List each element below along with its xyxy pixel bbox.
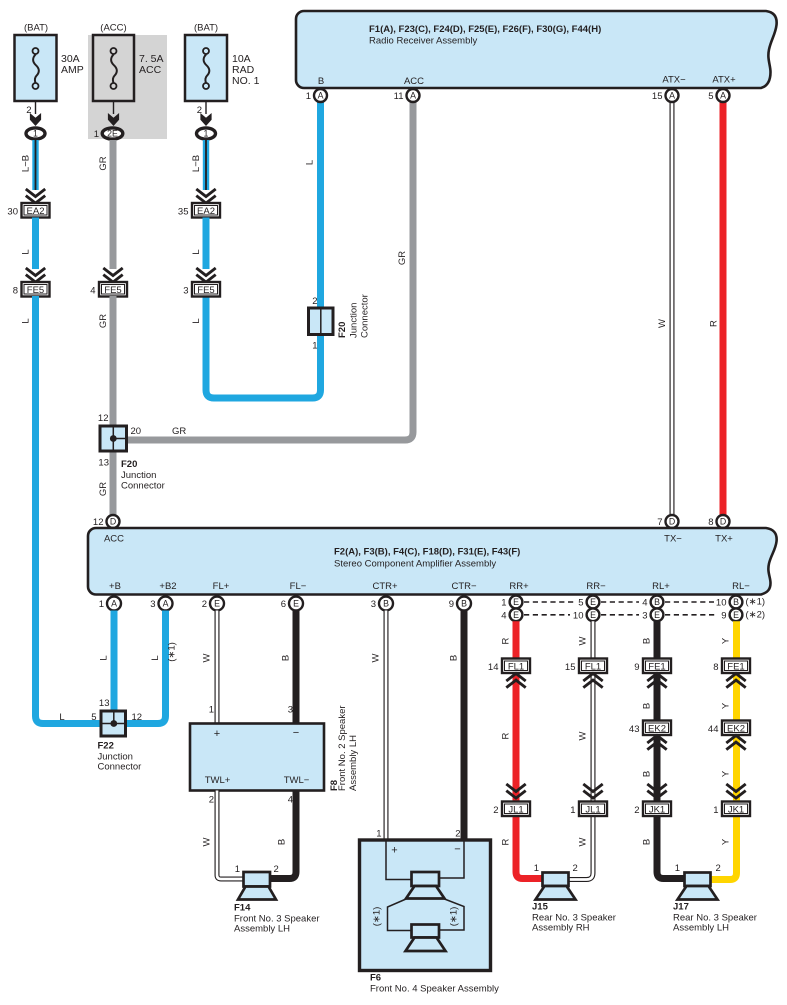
wire L-B fuse3 (blue with black stripe) — [203, 140, 209, 190]
svg-text:B: B — [642, 703, 653, 709]
svg-text:L−B: L−B — [191, 155, 202, 172]
svg-text:B: B — [383, 599, 389, 609]
svg-text:Junction: Junction — [349, 303, 360, 338]
svg-text:ACC: ACC — [104, 534, 124, 545]
svg-text:Connector: Connector — [121, 481, 165, 492]
svg-text:3: 3 — [288, 705, 293, 716]
F22 name label — [98, 741, 142, 773]
wire W from radio ATX- to amp TX- : outline — [670, 100, 675, 515]
svg-text:7: 7 — [657, 517, 662, 528]
svg-text:TX−: TX− — [664, 534, 682, 545]
svg-text:F6: F6 — [370, 973, 381, 984]
oval connector 2E (fuse2) — [102, 128, 123, 139]
svg-text:D: D — [669, 517, 675, 527]
svg-text:CTR−: CTR− — [451, 581, 477, 592]
svg-text:3: 3 — [183, 286, 188, 297]
svg-text:9: 9 — [634, 662, 639, 673]
F6 speaker 1 symbol — [406, 872, 445, 899]
svg-text:(BAT): (BAT) — [24, 23, 48, 34]
F6 internal wiring to speaker 2 — [388, 899, 465, 931]
svg-text:(BAT): (BAT) — [194, 23, 218, 34]
svg-text:FL1: FL1 — [585, 662, 601, 673]
svg-text:12: 12 — [98, 413, 109, 424]
oval connector 1 (fuse3) — [197, 128, 216, 139]
connector box 14 FL1 — [488, 659, 530, 674]
pin circle 5 A (radio ATX+) — [708, 89, 729, 102]
connector box 1 JK1 — [713, 802, 750, 817]
connector box 4 FE5 — [90, 282, 127, 297]
pin circle 10 E (RR- row2) — [573, 608, 599, 621]
svg-text:15: 15 — [652, 91, 663, 102]
svg-text:D: D — [110, 517, 116, 527]
pin circle 3 B (CTR+) — [371, 597, 393, 611]
svg-text:L: L — [21, 249, 32, 254]
svg-text:JL1: JL1 — [508, 805, 523, 816]
F14 name label — [234, 903, 320, 935]
svg-text:E: E — [214, 599, 220, 609]
svg-text:2: 2 — [209, 795, 214, 806]
svg-text:1: 1 — [312, 341, 317, 352]
svg-text:L: L — [99, 655, 110, 660]
F6 speaker 2 symbol — [406, 925, 446, 952]
wire W inner — [567, 621, 593, 879]
svg-text:13: 13 — [98, 458, 109, 469]
svg-text:F14: F14 — [234, 903, 251, 914]
svg-text:L: L — [59, 712, 64, 723]
connector box 8 FE1 — [713, 659, 750, 674]
svg-text:(∗1): (∗1) — [746, 597, 766, 608]
J17 name label — [673, 902, 757, 934]
svg-text:2: 2 — [573, 863, 578, 874]
svg-text:−: − — [454, 844, 460, 856]
svg-text:30: 30 — [7, 207, 18, 218]
dashed links row2 — [524, 614, 716, 616]
svg-text:RL−: RL− — [732, 581, 750, 592]
svg-text:2: 2 — [312, 296, 317, 307]
wire L from +B to F22 pin 13 — [111, 611, 118, 713]
svg-text:13: 13 — [99, 698, 110, 709]
svg-text:+: + — [214, 728, 220, 740]
svg-text:1: 1 — [204, 129, 209, 139]
svg-text:A: A — [720, 91, 726, 101]
chevron below EK2 (RL+) — [647, 736, 666, 750]
svg-text:Y: Y — [721, 838, 732, 845]
svg-text:14: 14 — [488, 662, 499, 673]
connector box 9 FE1 — [634, 659, 671, 674]
svg-text:W: W — [202, 653, 213, 662]
svg-text:R: R — [501, 637, 512, 644]
wire W inner white — [671, 100, 674, 515]
svg-text:F2(A), F3(B), F4(C), F18(D), F: F2(A), F3(B), F4(C), F18(D), F31(E), F43… — [334, 547, 520, 558]
wire R from RR+ to J15 — [516, 621, 543, 878]
svg-text:Connector: Connector — [98, 762, 142, 773]
oval connector 1 (fuse1) — [26, 128, 45, 139]
svg-text:Front No. 2 Speaker: Front No. 2 Speaker — [337, 705, 348, 791]
connector box 3 FE5 — [183, 282, 220, 297]
svg-text:15: 15 — [565, 662, 576, 673]
wire GR fuse2 oval to FE5 — [110, 140, 117, 269]
fuse 30A AMP body — [15, 35, 57, 101]
svg-text:E: E — [513, 597, 519, 607]
svg-text:−: − — [293, 727, 299, 739]
wire B from F8 TWL- to F14 — [269, 791, 296, 879]
svg-text:Connector: Connector — [360, 294, 371, 338]
svg-text:2: 2 — [274, 864, 279, 875]
junction connector F20 (right) — [309, 308, 334, 335]
F6 name label — [370, 973, 499, 995]
pin circle 3 E (RL+ row2) — [642, 608, 663, 621]
svg-text:JK1: JK1 — [728, 805, 744, 816]
svg-text:W: W — [578, 636, 589, 645]
wire B from FL- to F8 — [293, 611, 300, 725]
svg-text:A: A — [410, 91, 416, 101]
J15 name label — [532, 902, 616, 934]
svg-text:B: B — [318, 76, 324, 87]
svg-text:1: 1 — [94, 129, 99, 140]
svg-text:RR+: RR+ — [509, 581, 529, 592]
pin circle 3 A (+B2) — [150, 597, 172, 611]
svg-text:ACC: ACC — [404, 76, 424, 87]
svg-text:A: A — [163, 599, 169, 609]
svg-text:1: 1 — [99, 599, 104, 610]
chevron below EK2 (RL-) — [726, 736, 745, 750]
F6 internal wiring top — [386, 841, 464, 880]
svg-text:RL+: RL+ — [652, 581, 670, 592]
svg-text:3: 3 — [371, 599, 376, 610]
svg-text:Assembly LH: Assembly LH — [348, 735, 359, 791]
F20L name label — [121, 459, 165, 492]
svg-text:A: A — [318, 91, 324, 101]
svg-text:43: 43 — [629, 724, 640, 735]
svg-text:GR: GR — [98, 314, 109, 328]
gray background panel behind ACC fuse — [88, 35, 167, 139]
svg-text:2E: 2E — [107, 129, 118, 139]
svg-text:FE5: FE5 — [197, 285, 214, 296]
J15 speaker symbol — [536, 873, 576, 900]
pin circle 1 A (+B) — [99, 597, 121, 611]
svg-text:4: 4 — [90, 286, 95, 297]
pin circle 12 D (amp ACC) — [93, 515, 120, 528]
pin circle 2 E (FL+) — [202, 597, 224, 611]
chevron above JL1 (RR-) — [583, 784, 602, 798]
svg-text:F22: F22 — [98, 741, 114, 752]
svg-text:GR: GR — [98, 482, 109, 496]
wire fuse2 to oval — [113, 101, 115, 114]
svg-text:JK1: JK1 — [649, 805, 665, 816]
svg-text:E: E — [654, 610, 660, 620]
svg-text:1: 1 — [713, 805, 718, 816]
svg-text:8: 8 — [708, 517, 713, 528]
wire L long from 8 FE5 down to F22 — [36, 296, 102, 724]
connector box 8 FE5 — [13, 282, 50, 297]
svg-text:1: 1 — [675, 863, 680, 874]
pin circle 8 D (amp TX+) — [708, 515, 729, 528]
junction connector F22 — [101, 711, 126, 736]
svg-text:2: 2 — [493, 805, 498, 816]
chevron connector into EA2 (fuse1) — [26, 189, 45, 203]
svg-text:FE1: FE1 — [727, 662, 744, 673]
Stereo Component Amplifier Assembly block — [88, 528, 777, 595]
svg-text:GR: GR — [397, 251, 408, 265]
svg-text:B: B — [642, 771, 653, 777]
F20R name label rotated — [337, 294, 371, 338]
svg-text:1: 1 — [235, 864, 240, 875]
wire Y from RL- to J17 — [710, 621, 737, 879]
chevron connector into FE5 (fuse2) — [103, 268, 122, 282]
svg-text:F1(A), F23(C), F24(D), F25(E),: F1(A), F23(C), F24(D), F25(E), F26(F), F… — [369, 24, 601, 35]
svg-text:8: 8 — [713, 662, 718, 673]
chevron below FE1 (RL+) — [647, 674, 666, 688]
svg-text:Assembly LH: Assembly LH — [234, 924, 290, 935]
svg-text:12: 12 — [132, 712, 143, 723]
svg-text:R: R — [501, 838, 512, 845]
svg-text:W: W — [657, 319, 668, 328]
svg-text:F20: F20 — [121, 459, 137, 470]
svg-text:B: B — [733, 597, 739, 607]
svg-text:AMP: AMP — [61, 64, 84, 76]
junction connector F20 (left) — [100, 426, 127, 451]
pin circle 5 E (RR- row1) — [578, 596, 599, 609]
svg-text:R: R — [709, 320, 720, 327]
F14 speaker symbol — [238, 872, 276, 900]
wire W inner — [385, 611, 388, 842]
svg-text:8: 8 — [13, 286, 18, 297]
svg-text:B: B — [642, 638, 653, 644]
svg-text:FL1: FL1 — [508, 662, 524, 673]
svg-text:Stereo Component Amplifier Ass: Stereo Component Amplifier Assembly — [334, 559, 496, 570]
svg-text:E: E — [590, 610, 596, 620]
svg-text:EK2: EK2 — [648, 724, 666, 735]
svg-text:2: 2 — [716, 863, 721, 874]
svg-text:1: 1 — [376, 829, 381, 840]
svg-text:Radio Receiver Assembly: Radio Receiver Assembly — [369, 36, 477, 47]
svg-text:1: 1 — [306, 91, 311, 102]
pin circle 15 A (radio ATX-) — [652, 89, 679, 102]
svg-text:44: 44 — [708, 724, 719, 735]
svg-text:1: 1 — [209, 705, 214, 716]
svg-text:RR−: RR− — [586, 581, 606, 592]
svg-text:FE1: FE1 — [648, 662, 665, 673]
svg-text:Assembly LH: Assembly LH — [673, 923, 729, 934]
svg-text:D: D — [720, 517, 726, 527]
svg-text:F20: F20 — [337, 322, 348, 338]
pin circle 1 A (radio B) — [306, 89, 327, 102]
svg-text:5: 5 — [91, 712, 96, 723]
chevron above JL1 (RR+) — [506, 784, 525, 798]
svg-text:EK2: EK2 — [727, 724, 745, 735]
svg-text:1: 1 — [501, 598, 506, 609]
wire W from RR- to J15 : outline — [567, 621, 593, 879]
svg-text:EA2: EA2 — [197, 206, 215, 217]
wire L from junction F20 down, left, up to FE5 (3) — [206, 296, 321, 398]
svg-text:1: 1 — [534, 863, 539, 874]
svg-text:(ACC): (ACC) — [100, 23, 126, 34]
F8 Front No.2 Speaker Assembly block — [190, 724, 324, 791]
wire B from CTR- to F6 — [461, 611, 468, 842]
svg-text:R: R — [501, 732, 512, 739]
svg-text:E: E — [513, 610, 519, 620]
svg-text:A: A — [669, 91, 675, 101]
wire W from CTR+ to F6 : outline — [384, 611, 389, 842]
connector box 2 JL1 — [493, 802, 530, 817]
svg-text:+B: +B — [109, 581, 121, 592]
svg-text:5: 5 — [708, 91, 713, 102]
svg-text:B: B — [642, 839, 653, 845]
svg-text:TWL−: TWL− — [284, 775, 310, 786]
chevron connector into FE5 (fuse3) — [196, 268, 215, 282]
svg-text:11: 11 — [394, 91, 404, 102]
pin circle 10 B (RL- row1) — [716, 596, 742, 609]
svg-text:6: 6 — [281, 599, 286, 610]
connector arrow fuse1 — [30, 113, 41, 126]
connector box 43 EK2 — [629, 721, 671, 736]
svg-text:B: B — [277, 839, 288, 845]
wire W from FL+ to F8 : outline — [215, 611, 220, 725]
svg-text:(∗1): (∗1) — [167, 642, 178, 662]
wire L from radio B to junction F20 — [317, 100, 324, 309]
svg-text:Y: Y — [721, 637, 732, 644]
svg-text:+B2: +B2 — [159, 581, 176, 592]
svg-text:9: 9 — [449, 599, 454, 610]
svg-text:W: W — [371, 653, 382, 662]
svg-text:TWL+: TWL+ — [205, 775, 231, 786]
connector box 30 EA2 — [7, 203, 49, 218]
svg-text:W: W — [202, 837, 213, 846]
wire fuse1 to oval — [35, 101, 37, 114]
svg-text:(∗1): (∗1) — [449, 907, 460, 927]
connector box 35 EA2 — [178, 203, 220, 218]
wire B from RL+ to J17 — [657, 621, 685, 878]
svg-text:4: 4 — [501, 610, 506, 621]
wire GR from radio ACC down and left to F20 junction pin 20 — [127, 100, 413, 440]
svg-text:L: L — [21, 318, 32, 323]
svg-text:B: B — [281, 655, 292, 661]
pin circle 4 E (RR+ row2) — [501, 608, 522, 621]
svg-text:B: B — [449, 655, 460, 661]
svg-text:TX+: TX+ — [715, 534, 733, 545]
svg-text:JL1: JL1 — [585, 805, 600, 816]
chevron connector into FE5 (fuse1) — [26, 268, 45, 282]
svg-text:FE5: FE5 — [27, 285, 44, 296]
wire L-B fuse1 (blue with black stripe) — [32, 140, 38, 190]
wire L fuse1 EA2 to FE5 — [32, 218, 39, 270]
chevron below FE1 (RL-) — [726, 674, 745, 688]
wire W inner — [217, 791, 244, 880]
svg-text:E: E — [293, 599, 299, 609]
svg-text:10: 10 — [716, 598, 727, 609]
fuse 7.5A ACC body — [93, 35, 134, 101]
svg-text:(∗2): (∗2) — [746, 610, 766, 621]
pin circle 11 A (radio ACC) — [394, 89, 420, 102]
svg-text:4: 4 — [288, 795, 293, 806]
connector box 44 EK2 — [708, 721, 750, 736]
svg-text:E: E — [733, 610, 739, 620]
svg-text:12: 12 — [93, 517, 104, 528]
svg-text:35: 35 — [178, 207, 189, 218]
svg-text:EA2: EA2 — [27, 206, 45, 217]
chevron below FL1 (RR+) — [506, 674, 525, 688]
svg-text:Junction: Junction — [121, 470, 156, 481]
svg-text:3: 3 — [642, 610, 647, 621]
svg-text:L: L — [305, 160, 316, 165]
connector box 2 JK1 — [634, 802, 671, 817]
pin circle 7 D (amp TX-) — [657, 515, 678, 528]
F6 Front No.4 Speaker Assembly block — [360, 840, 491, 971]
connector box 1 JL1 — [570, 802, 607, 817]
svg-text:FE5: FE5 — [104, 285, 121, 296]
svg-text:Y: Y — [721, 770, 732, 777]
svg-text:ATX−: ATX− — [662, 75, 686, 86]
svg-text:B: B — [654, 597, 660, 607]
wire GR from 4 FE5 to F20 junction — [110, 296, 117, 427]
dashed links row1 — [524, 601, 714, 603]
wire W from F8 TWL+ to F14 : outline — [217, 791, 244, 880]
wire R from radio ATX+ to amp TX+ — [720, 100, 727, 515]
svg-text:J15: J15 — [532, 902, 549, 913]
svg-text:CTR+: CTR+ — [372, 581, 398, 592]
connector arrow fuse2 — [108, 113, 119, 126]
connector box 15 FL1 — [565, 659, 607, 674]
pin circle 4 B (RL+ row1) — [642, 596, 663, 609]
svg-text:10: 10 — [573, 610, 584, 621]
svg-text:NO. 1: NO. 1 — [232, 75, 260, 87]
pin circle 6 E (FL-) — [281, 597, 303, 611]
svg-text:A: A — [111, 599, 117, 609]
svg-text:Y: Y — [721, 702, 732, 709]
svg-text:Front No. 4 Speaker Assembly: Front No. 4 Speaker Assembly — [370, 984, 499, 995]
fuse 10A RAD NO.1 body — [185, 35, 227, 101]
svg-text:ATX+: ATX+ — [712, 75, 736, 86]
svg-text:B: B — [461, 599, 467, 609]
svg-text:20: 20 — [131, 426, 142, 437]
svg-text:2: 2 — [202, 599, 207, 610]
pin circle 9 B (CTR-) — [449, 597, 471, 611]
svg-text:Assembly RH: Assembly RH — [532, 923, 590, 934]
svg-text:J17: J17 — [673, 902, 689, 913]
Radio Receiver Assembly block — [296, 11, 777, 88]
svg-text:L: L — [150, 655, 161, 660]
svg-text:W: W — [578, 837, 589, 846]
svg-text:L: L — [191, 318, 202, 323]
chevron connector into EA2 (fuse3) — [196, 189, 215, 203]
wire L fuse3 EA2 to FE5 — [203, 218, 210, 270]
svg-text:W: W — [578, 731, 589, 740]
svg-text:5: 5 — [578, 598, 583, 609]
svg-text:2: 2 — [455, 829, 460, 840]
svg-text:E: E — [590, 597, 596, 607]
wire fuse3 to oval — [205, 101, 207, 114]
svg-text:2: 2 — [634, 805, 639, 816]
svg-text:L−B: L−B — [21, 155, 32, 172]
svg-text:ACC: ACC — [139, 64, 162, 76]
wire GR from F20 junction down to amp ACC — [110, 450, 117, 516]
svg-text:FL+: FL+ — [213, 581, 230, 592]
svg-text:4: 4 — [642, 598, 647, 609]
wire L from +B2 down and left to F22 pin 12 — [125, 611, 166, 724]
J17 speaker symbol — [678, 873, 718, 900]
svg-text:GR: GR — [172, 426, 186, 437]
wire W inner — [216, 611, 219, 725]
pin circle 9 E (RL- row2) — [721, 608, 742, 621]
F8 name label rotated — [329, 705, 359, 791]
svg-text:1: 1 — [33, 129, 38, 139]
svg-text:3: 3 — [150, 599, 155, 610]
svg-text:GR: GR — [98, 156, 109, 170]
connector arrow fuse3 — [200, 113, 211, 126]
svg-text:+: + — [391, 845, 397, 857]
svg-text:FL−: FL− — [290, 581, 307, 592]
chevron above JK1 (RL-) — [726, 784, 745, 798]
